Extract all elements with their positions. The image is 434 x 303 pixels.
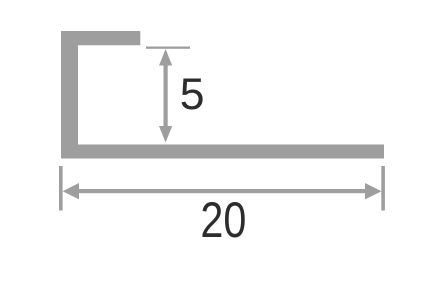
- dimension 20 right extension line: [381, 166, 385, 211]
- dimension 5 reference line: [146, 47, 190, 49]
- svg-text:20: 20: [200, 191, 246, 248]
- dimension 20 arrow shaft: [74, 189, 370, 193]
- dimension 20 right arrowhead: [365, 183, 382, 199]
- dimension 5 top arrowhead: [159, 49, 172, 66]
- dimension 5 bottom arrowhead: [159, 126, 172, 143]
- profile body (J-shaped trim cross-section): [61, 31, 384, 159]
- svg-text:5: 5: [180, 70, 205, 119]
- dimension 20 left arrowhead: [63, 183, 79, 199]
- dimension 5 arrow shaft: [164, 62, 168, 130]
- dimension 20 left extension line: [59, 166, 63, 211]
